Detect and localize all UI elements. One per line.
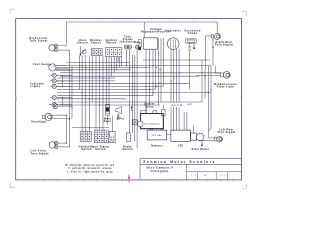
svg-text:L: blue Gr: light green Gy: L: blue Gr: light green Gy: gray: [67, 170, 113, 173]
svg-text:ACT: ACT: [188, 103, 194, 106]
svg-text:Battery: Battery: [151, 144, 163, 148]
svg-text:B R G W: B R G W: [172, 105, 183, 107]
svg-text:Headlight: Headlight: [31, 119, 46, 123]
svg-text:Fuse: Fuse: [104, 119, 112, 123]
svg-text:Turn Signal: Turn Signal: [30, 39, 48, 43]
svg-text:CDI: CDI: [178, 144, 184, 148]
svg-text:Oil Indicator: Oil Indicator: [144, 123, 160, 126]
svg-text:1 : 1: 1 : 1: [191, 175, 197, 177]
svg-text:Switch: Switch: [91, 41, 102, 45]
svg-text:Relay: Relay: [108, 140, 117, 144]
svg-text:Choke: Choke: [188, 31, 198, 35]
svg-text:Fuel Gauge: Fuel Gauge: [33, 62, 51, 66]
svg-text:1 / 1: 1 / 1: [220, 175, 225, 177]
svg-text:Lights: Lights: [31, 84, 41, 88]
svg-text:Horn: Horn: [117, 117, 125, 121]
svg-text:Switch: Switch: [77, 41, 88, 45]
svg-text:Switch: Switch: [81, 147, 92, 151]
svg-text:A4: A4: [204, 174, 207, 177]
svg-text:Plate Light: Plate Light: [217, 85, 234, 89]
svg-text:High: High: [134, 42, 141, 44]
svg-text:Switch: Switch: [106, 41, 117, 45]
svg-text:Collegiate: Collegiate: [151, 169, 169, 173]
svg-text:Alternator: Alternator: [165, 28, 181, 32]
svg-text:Switch: Switch: [122, 147, 133, 151]
svg-text:Turn Signal: Turn Signal: [31, 151, 49, 155]
svg-text:Turn Signal: Turn Signal: [217, 130, 235, 134]
svg-text:Switch: Switch: [95, 147, 106, 151]
svg-text:Schwinn Motor Scooters: Schwinn Motor Scooters: [143, 160, 216, 164]
svg-text:12V 6Ah: 12V 6Ah: [152, 134, 163, 137]
svg-text:Turn Signal: Turn Signal: [215, 43, 233, 47]
svg-text:Start Motor: Start Motor: [191, 147, 209, 151]
